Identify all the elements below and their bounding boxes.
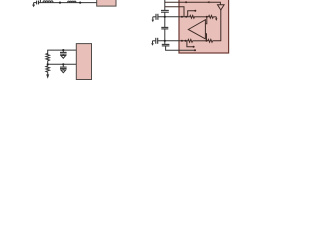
resistor (rail 2, first) <box>188 39 193 42</box>
op-amp U1 (points left) <box>188 20 205 39</box>
node (rail1 border dot) <box>181 16 183 18</box>
node (Cc wire end dot) <box>194 49 196 51</box>
inductor L1 <box>43 1 53 3</box>
wire (rail 2 middle) <box>193 40 208 42</box>
wire T2 (second line, drops to rail 1) <box>165 7 184 17</box>
capacitor Cc (below rail 2) <box>162 41 170 46</box>
node (rail2 / chain dot) <box>164 40 166 42</box>
capacitor C3 (rail 2 series cap) <box>156 38 158 44</box>
input elbow E2 (to op-amp lower input) <box>205 34 206 41</box>
node (rail1 T2 dot) <box>185 16 187 18</box>
node (T1 dot) <box>185 1 187 3</box>
block (large pink module, cut at top) <box>179 0 229 53</box>
wire (rail 2 into block) <box>158 40 188 42</box>
ground arrow (top-left chain) <box>32 3 36 8</box>
inside-block wiring, darker red-black <box>165 1 224 47</box>
wire (rail 1 end stub) <box>213 16 216 18</box>
capacitor Cb (between rail 1 and rail 2) <box>161 27 168 40</box>
wire (rail 1 into block) <box>158 16 189 18</box>
wire (rail 1 middle) <box>195 16 209 18</box>
ground arrow (rail 1 end) <box>215 17 217 19</box>
stub S1 (pin stub above triangle) <box>188 11 196 17</box>
node (rail2 dot 2) <box>185 40 187 42</box>
input elbow E1 (to op-amp upper input) <box>205 17 206 24</box>
buffer triangle U2 (points down) <box>218 5 225 10</box>
resistor (rail 1, second) <box>209 15 214 18</box>
node (junction dot after L2) <box>79 1 81 3</box>
capacitor to ground (on upper wire) <box>60 50 67 58</box>
node (upper cap junction) <box>62 49 64 51</box>
capacitor to ground (on lower wire) <box>60 64 67 72</box>
resistor R2 (lower half of divider) <box>46 64 50 74</box>
node (S1 end dot) <box>194 10 196 12</box>
node (rail1 / chain dot) <box>164 16 166 18</box>
capacitor C1 <box>37 1 39 5</box>
wire (vertical feed from top edge, cut) <box>164 0 166 10</box>
resistor (rail 1, first) <box>189 15 195 18</box>
ground arrow (below R2) <box>46 74 49 78</box>
ground arrow (rail 1, left) <box>152 17 156 22</box>
stub S2 (pin stub below triangle) <box>187 41 194 47</box>
capacitor Ca (between feed and rail 1) <box>161 10 169 16</box>
wire T1 (top line to small triangle) <box>165 2 221 5</box>
inductor L2 <box>68 1 76 2</box>
wire (branch up, cut at top) <box>39 0 41 3</box>
node (junction dot between L1 and L2) <box>59 1 61 3</box>
node (lower cap junction) <box>62 63 64 65</box>
node (S2 end dot) <box>193 46 195 48</box>
wire (rail 2 to riser corner) <box>213 10 221 41</box>
block (middle-left pink module) <box>76 44 91 80</box>
wire (lower) <box>48 63 77 65</box>
resistor (rail 2, second) <box>208 39 213 42</box>
capacitor C2 (rail 1 series cap) <box>156 14 158 20</box>
resistor R1 (upper half of divider) <box>46 53 50 64</box>
ground arrow (rail 2, left) <box>151 41 156 46</box>
wire (Cc elbow into block bottom) <box>166 46 195 50</box>
arrowhead (left-pointing, on T1) <box>207 1 210 3</box>
node (rail2 E2 dot) <box>206 40 208 42</box>
node (rail2 border dot) <box>181 40 183 42</box>
wire (upper) <box>48 50 77 55</box>
block (top-left pink module, cut at top) <box>97 0 116 6</box>
wire (rail1 down to Cb) <box>164 17 166 28</box>
node (rail1 E1 dot) <box>206 16 208 18</box>
wire (main top rail) <box>39 2 97 4</box>
node (divider tap junction) <box>47 63 49 65</box>
